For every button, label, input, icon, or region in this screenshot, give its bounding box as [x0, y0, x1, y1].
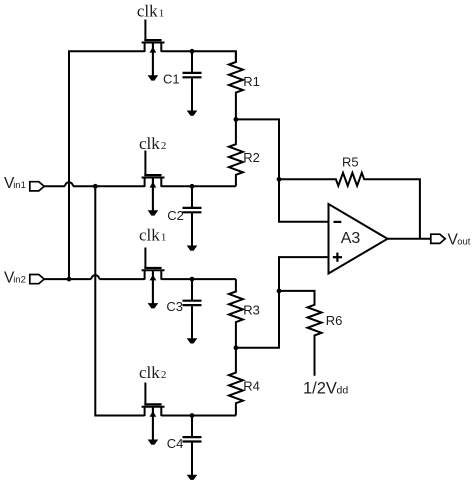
- label clk2 (Q4 gate): [139, 363, 166, 382]
- ground (Q4 bulk arrow): [148, 408, 159, 445]
- ground (C4 bottom arrow): [187, 475, 198, 480]
- label Vin2: [4, 269, 26, 286]
- wire: hop over bus B: [91, 275, 99, 279]
- junction: R3/R4 node: [234, 345, 239, 350]
- svg-text:R2: R2: [243, 150, 260, 165]
- junction: node C1: [190, 49, 195, 54]
- junction: node C4: [190, 413, 195, 418]
- resistor R2: [229, 119, 243, 186]
- capacitor C2: [183, 186, 202, 246]
- svg-text:clk: clk: [139, 226, 160, 245]
- svg-text:clk: clk: [137, 1, 158, 20]
- wire: row4 right (Q4 drain to R4 bottom corner): [161, 415, 236, 417]
- capacitor C3: [183, 279, 202, 339]
- svg-text:R5: R5: [342, 155, 359, 170]
- junction: Vin1 / bus B: [93, 184, 98, 189]
- wire: row3 right (Q3 drain to R3 top corner): [161, 278, 236, 280]
- label clk2 (Q2 gate): [139, 134, 166, 153]
- svg-text:in2: in2: [13, 274, 26, 285]
- label clk1 (Q1 gate): [137, 1, 164, 20]
- svg-text:2: 2: [161, 140, 167, 152]
- wire: op-amp output to Vout port: [388, 238, 431, 240]
- port Vin2: [30, 275, 44, 284]
- label Vin1: [4, 175, 26, 192]
- junction: node C2: [190, 184, 195, 189]
- ground (C1 bottom arrow): [187, 111, 198, 116]
- ground (Q3 bulk arrow): [148, 271, 159, 308]
- resistor R1: [229, 51, 243, 119]
- svg-text:1: 1: [161, 232, 167, 244]
- svg-text:R1: R1: [243, 74, 260, 89]
- wire: Vin2 row to Q3 source: [99, 278, 144, 280]
- svg-text:R6: R6: [326, 313, 343, 328]
- svg-text:C1: C1: [163, 72, 180, 87]
- port Vout: [431, 234, 445, 243]
- wire: Vin1 row left of hop: [44, 185, 65, 187]
- junction: R6 tap on + branch: [277, 289, 282, 294]
- op-amp plus pin mark: [333, 253, 342, 262]
- svg-text:C3: C3: [166, 299, 183, 314]
- ground (C3 bottom arrow): [187, 338, 198, 343]
- svg-text:C4: C4: [167, 436, 184, 451]
- ground (Q2 bulk arrow): [148, 178, 159, 215]
- svg-text:1/2V: 1/2V: [303, 379, 337, 397]
- op-amp A3: [329, 204, 388, 274]
- wire: row2 right (Q2 drain to R2 bottom corner): [161, 185, 236, 187]
- svg-text:in1: in1: [13, 180, 26, 191]
- label 1/2Vdd (bias net): [303, 379, 348, 397]
- transistor Q2 (clk2 switch): [142, 151, 165, 187]
- capacitor C1: [183, 51, 202, 111]
- wire: Vin2 row left of hop: [44, 278, 91, 280]
- ground (Q1 bulk arrow): [148, 43, 159, 80]
- svg-text:C2: C2: [167, 208, 184, 223]
- svg-text:dd: dd: [337, 384, 349, 396]
- svg-text:2: 2: [161, 369, 167, 381]
- resistor R4: [229, 348, 243, 416]
- label clk1 (Q3 gate): [139, 226, 166, 245]
- capacitor C4: [183, 416, 202, 476]
- wire: bus B (Vin1 down to row4): [95, 186, 144, 415]
- junction: node C3: [190, 277, 195, 282]
- wire: op-amp + input branch: [236, 257, 329, 348]
- ground (C2 bottom arrow): [187, 246, 198, 251]
- svg-text:A3: A3: [341, 230, 361, 247]
- junction: R1/R2 node: [234, 117, 239, 122]
- resistor R6: [279, 291, 322, 376]
- svg-text:R4: R4: [243, 379, 260, 394]
- wire: R1/R2 node to inverting branch: [236, 119, 329, 221]
- label Vout: [448, 232, 471, 249]
- transistor Q4 (clk2 switch): [142, 383, 165, 417]
- wire: row1 left (bus A corner to Q1 source): [69, 51, 145, 279]
- junction: Vin2 / bus A: [67, 277, 72, 282]
- wire: Vin1 row to Q2 source: [73, 185, 145, 187]
- resistor R3: [229, 279, 243, 348]
- resistor R5 (feedback): [279, 173, 420, 239]
- wire: hop over bus A: [65, 182, 73, 186]
- svg-text:clk: clk: [139, 134, 160, 153]
- transistor Q1 (clk1 switch): [142, 20, 165, 52]
- svg-text:R3: R3: [243, 302, 260, 317]
- wire: row1 right (Q1 drain to R1 top corner): [161, 51, 236, 62]
- port Vin1: [30, 182, 44, 191]
- svg-text:clk: clk: [139, 363, 160, 382]
- svg-text:1: 1: [159, 7, 165, 19]
- svg-text:out: out: [457, 237, 471, 248]
- transistor Q3 (clk1 switch): [142, 248, 165, 280]
- op-amp minus pin mark: [334, 221, 342, 223]
- junction: R5 tap on inverting branch: [277, 177, 282, 182]
